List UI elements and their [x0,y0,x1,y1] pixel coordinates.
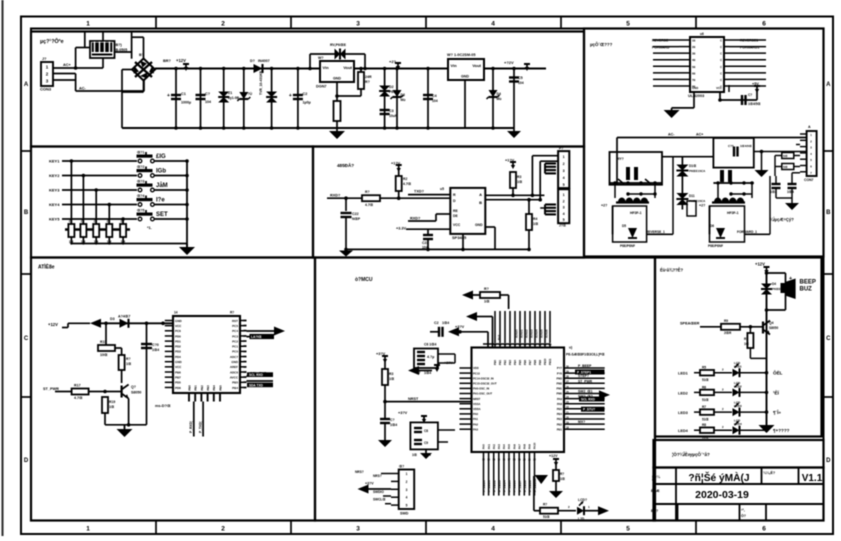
svg-text:RXD?: RXD? [410,217,421,221]
svg-text:R?: R? [543,503,547,507]
svg-text:PH1-OSC_OUT: PH1-OSC_OUT [473,392,492,396]
svg-text:D1Œ: D1Œ [689,164,697,168]
svg-text:3: 3 [563,206,565,210]
svg-text:P_LED8: P_LED8 [523,480,527,492]
svg-text:TVR_10-431KB: TVR_10-431KB [259,70,263,95]
svg-text:PB1: PB1 [194,385,198,391]
svg-text:4: 4 [491,21,495,28]
svg-text:*1.: *1. [147,225,152,230]
svg-text:Œ?1: Œ?1 [137,151,144,155]
svg-text:4: 4 [491,526,495,533]
svg-text:P_STU?: P_STU? [583,408,595,412]
svg-text:LED1: LED1 [734,365,742,369]
svg-text:1Œ4: 1Œ4 [152,348,159,352]
svg-text:ST_PWR: ST_PWR [43,387,59,391]
svg-text:B: B [826,210,831,216]
svg-text:VCC: VCC [175,365,182,369]
svg-text:C: C [720,65,722,69]
svg-text:+: + [289,93,292,99]
svg-text:FORWARD_1: FORWARD_1 [737,230,757,234]
svg-text:D: D [826,458,831,464]
svg-text:¶¨Î»: ¶¨Î» [773,408,781,415]
svg-text:C: C [720,45,722,49]
svg-text:P_LED0: P_LED0 [482,480,486,492]
svg-text:1: 1 [86,21,90,28]
svg-text:A: A [808,125,811,129]
svg-text:PC5: PC5 [232,324,238,328]
svg-text:P_LED3: P_LED3 [497,480,501,492]
svg-text:5: 5 [626,526,630,533]
svg-text:+12V: +12V [755,262,765,267]
svg-text:Ò?: Ò? [741,513,746,518]
svg-text:P_LED1: P_LED1 [487,480,491,492]
svg-text:51Œ: 51Œ [702,418,710,422]
svg-text:S8050: S8050 [769,326,778,330]
svg-text:PM2: PM2 [556,382,562,386]
svg-text:Q?: Q? [131,385,136,389]
svg-text:P_LED7: P_LED7 [518,480,522,492]
svg-text:A: A [479,192,482,197]
svg-text:ST_PWR: ST_PWR [578,379,593,383]
svg-text:L?D: L?D [578,517,585,521]
svg-text:D4: D4 [497,92,501,96]
svg-text:u): u) [569,346,572,350]
svg-text:PC1: PC1 [232,345,238,349]
svg-text:GND: GND [461,75,469,79]
svg-text:D3: D3 [401,93,405,97]
svg-text:C?5: C?5 [728,144,734,148]
svg-text:NRS?: NRS? [373,474,382,478]
svg-text:PY7: PY7 [557,366,563,370]
svg-text:R?: R? [126,357,131,361]
svg-text:D3: D3 [110,317,115,321]
svg-text:4.7Œ: 4.7Œ [403,182,412,186]
svg-text:4.7Œ: 4.7Œ [365,203,374,207]
svg-text:AC+: AC+ [63,63,71,67]
svg-text:1Œ4: 1Œ4 [424,371,431,375]
svg-text:5: 5 [626,21,630,28]
svg-text:Vin: Vin [451,63,458,68]
svg-text:PD2: PD2 [175,345,181,349]
svg-text:PA2: PA2 [492,444,496,449]
svg-text:Œ?2: Œ?2 [137,165,144,169]
svg-text:PB3: PB3 [557,417,563,421]
svg-text:R4: R4 [533,217,537,221]
svg-text:C?: C? [205,92,211,96]
svg-text:PB11: PB11 [548,358,552,365]
svg-text:51Œ: 51Œ [543,515,551,519]
svg-text:B?: B? [139,53,144,57]
svg-text:1Œ4/5Œ: 1Œ4/5Œ [748,102,761,106]
svg-text:PA5: PA5 [507,444,511,449]
svg-text:1000µ: 1000µ [181,101,191,105]
svg-text:RV,P6ŒE: RV,P6ŒE [330,43,347,47]
svg-text:£IG: £IG [156,154,166,160]
svg-text:A: A [24,82,29,88]
svg-text:LED3: LED3 [734,404,742,408]
svg-text:1Œ: 1Œ [517,180,523,184]
svg-text:C1: C1 [181,92,186,96]
svg-text:P_RXD¦: P_RXD¦ [189,421,193,433]
svg-text:V1.1: V1.1 [802,473,823,484]
svg-text:PB10: PB10 [543,358,547,365]
svg-text:10Œ: 10Œ [100,353,108,357]
svg-text:4.7Œ: 4.7Œ [74,396,83,400]
svg-text:C?: C? [390,418,395,422]
svg-text:C8: C8 [424,429,428,433]
svg-text:Z1: Z1 [228,91,232,95]
svg-text:1: 1 [406,472,408,476]
svg-text:LED2: LED2 [734,384,742,388]
svg-text:2: 2 [563,162,565,166]
svg-text:3: 3 [563,169,565,173]
svg-text:Œ?4: Œ?4 [137,194,144,198]
svg-text:P?: P? [559,147,563,151]
svg-text:P_STEP1: P_STEP1 [577,371,591,375]
svg-text:P6ŒE15CA: P6ŒE15CA [689,169,706,173]
svg-text:AC-: AC- [668,133,675,137]
svg-text:PA3: PA3 [497,444,501,449]
svg-text:SP3485: SP3485 [452,235,467,240]
svg-text:LED4: LED4 [678,429,689,433]
svg-text:R?: R? [560,472,564,476]
svg-text:1Œ: 1Œ [389,377,395,381]
svg-text:D11: D11 [689,194,695,198]
svg-text:RY?: RY? [617,157,624,161]
svg-text:NRS?: NRS? [355,470,364,474]
svg-text:SCL RXD: SCL RXD [581,398,596,402]
svg-text:PC15-OSC32_OUT: PC15-OSC32_OUT [473,382,497,386]
svg-text:D5: D5 [622,224,626,228]
svg-text:SŒ: SŒ [783,165,788,169]
svg-text:¶+????: ¶+???? [773,428,790,433]
svg-text:VSSA: VSSA [473,402,480,406]
svg-text:R?: R? [484,287,489,291]
svg-text:+3?V: +3?V [455,325,465,329]
svg-text:PB2: PB2 [200,385,204,391]
svg-text:XIAó4: XIAó4 [535,329,539,338]
svg-text:1Œ4: 1Œ4 [390,423,397,427]
svg-text:4: 4 [563,176,565,180]
svg-text:REVERSE_1: REVERSE_1 [646,230,665,234]
svg-text:PB7: PB7 [528,359,532,365]
svg-text:1: 1 [86,526,90,533]
svg-text:W?: W? [318,56,324,60]
svg-text:P_LED6: P_LED6 [513,480,517,492]
svg-text:?Ù: ?Ù [248,91,253,96]
svg-text:14: 14 [174,311,178,315]
svg-text:1Œ: 1Œ [412,453,418,457]
svg-text:B: B [479,200,482,205]
svg-text:3: 3 [356,526,360,533]
svg-text:PD4: PD4 [175,355,181,359]
svg-text:PB2: PB2 [503,359,507,365]
svg-text:+12V: +12V [48,322,58,327]
svg-text:VCC: VCC [716,86,722,90]
svg-text:AREF: AREF [230,365,238,369]
svg-text:IGb: IGb [156,169,166,175]
svg-text:2: 2 [406,480,408,484]
svg-text:PA7: PA7 [517,444,521,449]
svg-text:Éó?: Éó? [651,508,659,513]
svg-text:R?: R? [365,80,370,84]
svg-text:µç?¹?Ôªe: µç?¹?Ôªe [40,37,64,45]
svg-text:IN4007: IN4007 [258,59,270,63]
svg-text:XIAó0: XIAó0 [515,329,519,338]
svg-text:A?4Œ7: A?4Œ7 [118,315,130,319]
svg-text:PA8: PA8 [523,444,527,449]
svg-text:C5: C5 [518,76,523,80]
svg-text:+: + [167,93,170,99]
svg-text:SDA TXD: SDA TXD [249,383,264,387]
svg-text:4B: 4B [692,58,695,62]
svg-text:7B: 7B [692,78,695,82]
svg-text:PC2: PC2 [232,339,238,343]
svg-text:HF3F-1: HF3F-1 [630,211,642,215]
svg-text:1: 1 [563,193,565,197]
svg-text:W? 1-0C2SM-05: W? 1-0C2SM-05 [447,53,475,57]
svg-text:RXD?: RXD? [330,194,341,198]
svg-text:AVCC: AVCC [230,375,239,379]
svg-text:RE: RE [453,209,458,213]
svg-text:R?: R? [230,311,234,315]
svg-text:NŒP: NŒP [352,217,361,221]
svg-text:Vin: Vin [323,65,330,70]
svg-text:5: 5 [563,218,565,222]
svg-text:HF3F-1: HF3F-1 [727,211,739,215]
svg-text:R5: R5 [702,366,706,370]
svg-text:+?2V: +?2V [504,60,514,65]
svg-text:C4: C4 [432,94,437,98]
svg-text:SET: SET [156,212,168,218]
svg-text:PD3: PD3 [175,350,181,354]
svg-text:PD1: PD1 [175,339,181,343]
svg-text:4: 4 [563,212,565,216]
svg-text:PY6: PY6 [557,371,563,375]
svg-text:+2?: +2? [601,204,607,208]
svg-text:PB5: PB5 [518,359,522,365]
svg-text:PB1: PB1 [498,359,502,365]
svg-text:KEY5: KEY5 [49,217,60,222]
svg-text:LCD?: LCD? [578,498,587,502]
svg-text:1Œ: 1Œ [560,477,566,481]
svg-text:B?): B?) [116,43,123,47]
svg-text:4.?µ: 4.?µ [427,355,434,359]
svg-text:C23: C23 [422,241,428,245]
svg-text:1µ0µ: 1µ0µ [303,101,311,105]
svg-text:PB2: PB2 [557,422,563,426]
svg-text:R?: R? [744,337,748,341]
svg-text:VCC: VCC [175,324,182,328]
svg-text:NRST: NRST [473,397,481,401]
svg-text:R17: R17 [74,384,81,388]
svg-text:C?: C? [748,93,752,97]
svg-text:PD0: PD0 [175,334,181,338]
svg-text:D2: D2 [389,85,394,89]
svg-text:Mù: Mù [401,98,406,102]
svg-text:Q4: Q4 [769,321,774,325]
svg-text:R?: R? [365,190,370,194]
svg-text:SWCLŒ: SWCLŒ [373,498,386,502]
svg-text:R3: R3 [389,372,393,376]
svg-text:PB3: PB3 [206,385,210,391]
svg-text:¼ÌµçÆ÷Çý?: ¼ÌµçÆ÷Çý? [770,217,794,222]
svg-text:¹².: ¹². [741,508,745,513]
svg-text:PA4: PA4 [502,444,506,449]
svg-text:S8050: S8050 [131,391,141,395]
svg-text:Œ?3: Œ?3 [137,180,144,184]
svg-text:R19: R19 [109,400,115,404]
svg-text:(J¦: (J¦ [652,478,656,482]
svg-text:PB7: PB7 [175,375,181,379]
svg-text:TXD?: TXD? [414,190,425,194]
svg-text:AC+: AC+ [696,133,703,137]
svg-text:VCC: VCC [453,223,461,227]
svg-text:1Œ: 1Œ [744,342,750,346]
svg-text:CON7: CON7 [804,178,814,182]
svg-text:R15: R15 [100,340,107,344]
svg-text:1Œ: 1Œ [109,405,115,409]
svg-text:PB5: PB5 [232,381,238,385]
svg-text:3: 3 [356,21,360,28]
svg-text:3: 3 [406,488,408,492]
svg-text:LED3: LED3 [678,411,688,415]
svg-text:PB6: PB6 [175,370,181,374]
svg-text:6: 6 [762,21,766,28]
svg-text:104: 104 [205,100,211,104]
svg-text:P6ŒE: P6ŒE [772,287,781,291]
svg-text:MX?: MX? [578,420,585,424]
svg-text:Pù2: Pù2 [497,334,501,340]
svg-text:PA6: PA6 [512,444,516,449]
svg-text:ADC6: ADC6 [230,370,238,374]
svg-text:PB5: PB5 [557,407,563,411]
svg-text:3B: 3B [692,52,695,56]
svg-text:D4: D4 [772,282,776,286]
svg-text:PB1: PB1 [557,427,563,431]
svg-text:C: C [24,336,29,342]
svg-text:104: 104 [432,99,438,103]
svg-text:PB4: PB4 [513,359,517,365]
svg-text:SWD: SWD [400,512,409,516]
svg-text:GND: GND [692,86,698,90]
svg-text:1Œ: 1Œ [484,300,490,304]
svg-text:ÔËL: ÔËL [773,369,783,376]
svg-text:XIAó1: XIAó1 [520,329,524,338]
svg-text:485ÐÅ?: 485ÐÅ? [337,162,354,168]
svg-text:PM0: PM0 [556,392,562,396]
svg-text:GND: GND [175,319,183,323]
svg-text:PD5: PD5 [175,381,181,385]
svg-text:BEEP: BEEP [800,280,816,286]
svg-text:R7: R7 [702,405,706,409]
svg-text:Mù: Mù [497,97,502,101]
svg-text:C3: C3 [389,109,394,113]
svg-text:PA3: PA3 [473,427,479,431]
svg-text:È?Æ: È?Æ [651,488,660,493]
svg-text:10uF: 10uF [389,114,397,118]
svg-text:P_LED2: P_LED2 [492,480,496,492]
svg-text:+: + [789,276,792,282]
svg-text:PA0: PA0 [473,412,479,416]
svg-text:PB3: PB3 [508,359,512,365]
svg-text:51Œ: 51Œ [702,436,710,440]
svg-text:VDD: VDD [473,366,479,370]
svg-text:P_LED9: P_LED9 [528,480,532,492]
svg-text:LED4: LED4 [734,422,742,426]
svg-text:PB4: PB4 [232,386,238,390]
svg-text:104: 104 [518,81,524,85]
svg-text:PM1: PM1 [556,387,562,391]
svg-text:JåM: JåM [156,182,168,189]
svg-text:KEY4: KEY4 [49,202,60,207]
svg-text:PA0: PA0 [482,444,486,449]
svg-text:PC6: PC6 [175,329,181,333]
svg-text:D6: D6 [710,224,714,228]
svg-text:ULN2003: ULN2003 [688,94,704,98]
svg-text:2: 2 [221,21,225,28]
svg-text:PB8: PB8 [533,359,537,365]
svg-text:PB9: PB9 [538,359,542,365]
svg-text:+3?V: +3?V [398,411,408,415]
svg-text:PB6: PB6 [523,359,527,365]
svg-text:¦Ö?¼ÎÈѹµçÔ´°å?: ¦Ö?¼ÎÈѹµçÔ´°å? [672,450,710,457]
svg-text:CON3: CON3 [40,87,52,92]
svg-text:PA10: PA10 [533,442,537,449]
svg-text:1Œ4/5Œ: 1Œ4/5Œ [740,144,752,148]
svg-text:µçÔ´Œ???: µçÔ´Œ??? [590,42,613,47]
svg-text:1Œ4: 1Œ4 [442,321,449,325]
svg-text:P_LED4: P_LED4 [503,480,507,492]
svg-text:KEY3: KEY3 [49,188,60,193]
svg-text:SPEAŒER: SPEAŒER [680,322,700,326]
svg-text:BR?: BR? [163,59,171,63]
svg-text:Éù¹â¾??Ê?: Éù¹â¾??Ê? [660,268,683,273]
svg-text:C2: C2 [434,321,439,325]
svg-text:GND: GND [475,223,483,227]
svg-text:C22: C22 [352,212,359,216]
svg-text:PC13: PC13 [473,371,480,375]
svg-text:STEP?: STEP? [578,374,589,378]
svg-text:PA9: PA9 [557,397,563,401]
svg-text:1: 1 [563,155,565,159]
svg-text:PC14-OSC32_IN: PC14-OSC32_IN [473,376,494,380]
svg-text:XIAó6: XIAó6 [545,329,549,338]
svg-text:PC4: PC4 [232,329,238,333]
svg-text:R8: R8 [702,423,706,427]
svg-text:4: 4 [406,496,408,500]
svg-text:6: 6 [762,526,766,533]
svg-text:ADC7: ADC7 [230,355,238,359]
svg-text:C: C [720,71,722,75]
svg-text:C: C [720,52,722,56]
svg-text:¼¼,Ê?: ¼¼,Ê? [763,470,776,475]
svg-text:ò?MCU: ò?MCU [355,277,373,283]
svg-text:SWDIO: SWDIO [373,490,384,494]
svg-text:DGN7: DGN7 [316,85,327,89]
svg-text:C: C [720,58,722,62]
svg-text:2ŒR: 2ŒR [724,331,732,335]
svg-text:D: D [24,458,29,464]
svg-text:Vout: Vout [343,65,352,70]
svg-text:NRST: NRST [408,397,419,401]
svg-text:2020-03-19: 2020-03-19 [695,489,749,501]
svg-text:KEY2: KEY2 [49,173,60,178]
svg-text:LED2: LED2 [678,391,688,395]
svg-text:R: R [453,193,456,197]
svg-text:¹ÊÏ: ¹ÊÏ [773,388,780,395]
svg-text:PB5: PB5 [218,385,222,391]
